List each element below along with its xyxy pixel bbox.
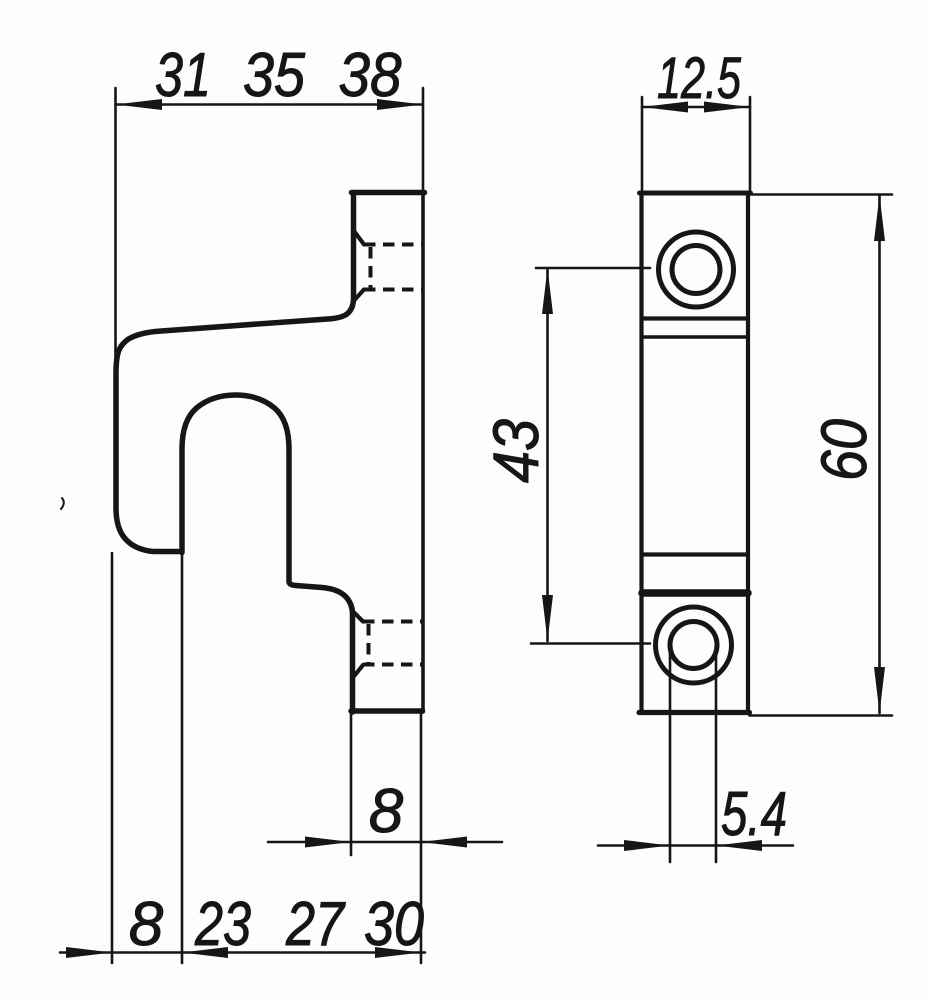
svg-text:60: 60 [808,419,880,481]
svg-text:27: 27 [285,890,346,959]
svg-text:38: 38 [339,41,402,110]
svg-text:31: 31 [155,41,211,110]
svg-text:8: 8 [129,890,164,959]
svg-text:30: 30 [364,890,424,959]
svg-text:12.5: 12.5 [657,46,742,111]
svg-text:23: 23 [194,890,251,959]
svg-text:43: 43 [480,419,552,483]
svg-text:5.4: 5.4 [721,780,787,849]
svg-text:35: 35 [243,41,305,110]
svg-text:8: 8 [369,777,404,846]
